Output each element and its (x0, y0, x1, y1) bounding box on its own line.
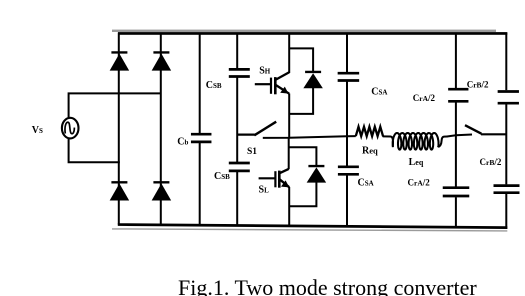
svg-text:S1: S1 (247, 147, 257, 157)
caption Fig.1 (178, 275, 477, 296)
capacitor CrA/2 (upper) (448, 89, 468, 101)
label CrA/2 lower (408, 177, 431, 187)
svg-text:SH: SH (259, 65, 271, 76)
svg-text:Req: Req (362, 146, 378, 157)
svg-text:CSA: CSA (358, 178, 374, 189)
svg-text:CSB: CSB (214, 171, 230, 182)
inductor Leq (383, 133, 447, 150)
svg-text:CrB/2: CrB/2 (480, 157, 502, 167)
resistor Req (356, 127, 383, 136)
svg-text:VS: VS (32, 125, 43, 136)
wire CrA column (455, 33, 457, 228)
diode D2 (leg 2 top) (152, 52, 172, 70)
label Vs (32, 125, 43, 136)
label Req (362, 146, 378, 157)
transistor SH (IGBT) (255, 72, 289, 94)
wire top rail (positive DC bus) (112, 30, 507, 35)
wire CrB column (505, 33, 507, 229)
capacitor CSA (lower) (338, 167, 359, 175)
capacitor CrA/2 (lower) (443, 188, 470, 196)
capacitor CSA (upper) (338, 73, 360, 80)
svg-text:SL: SL (259, 185, 270, 196)
wire main column (SH emitter to middle node) (288, 94, 290, 139)
label CSB lower (214, 171, 230, 182)
diode D4 (leg 2 bottom) (152, 182, 172, 200)
label S1 (247, 147, 257, 157)
wire main switch column (upper segment) (288, 33, 290, 74)
wire main column (SL emitter to bottom rail) (288, 187, 290, 227)
wire CSA column (346, 33, 348, 227)
label CrB/2 upper (467, 80, 489, 90)
diode DL (anti-parallel with SL) (289, 147, 326, 206)
capacitor CSB (lower) (229, 163, 250, 171)
label SH (259, 65, 271, 76)
label Cb (177, 136, 188, 147)
label CSA lower (358, 178, 374, 189)
diode D3 (leg 1 bottom) (110, 182, 129, 200)
wire Leq output to switch (447, 135, 472, 137)
capacitor Cb (191, 134, 212, 142)
capacitor CrB/2 (lower) (494, 186, 520, 193)
svg-text:CrA/2: CrA/2 (413, 93, 436, 103)
svg-text:CrB/2: CrB/2 (467, 80, 489, 90)
wire middle row (S1 to Req node) (263, 136, 356, 138)
svg-text:Cb: Cb (177, 136, 188, 147)
wire bridge leg 2 (160, 33, 162, 225)
diode DH (anti-parallel with SH) (289, 48, 323, 114)
label CSB upper (206, 80, 222, 91)
wire bottom rail (negative DC bus, slightly sloped) (112, 223, 507, 231)
capacitor CrB/2 (upper) (498, 92, 519, 104)
label Leq (409, 157, 424, 168)
svg-text:CSA: CSA (371, 87, 387, 98)
label CrB/2 lower (480, 157, 502, 167)
transistor SL (IGBT) (259, 169, 290, 188)
source Vs (AC input) (62, 118, 79, 139)
diode D1 (leg 1 top) (110, 52, 129, 70)
wire CSB column (236, 33, 238, 226)
label CrA/2 upper (413, 93, 436, 103)
switch S1 (237, 122, 276, 136)
wire Cb column (199, 33, 201, 225)
svg-text:Leq: Leq (409, 157, 424, 168)
capacitor CSB (upper) (229, 69, 250, 76)
label CSA upper (371, 87, 387, 98)
wire bridge leg 1 (118, 33, 120, 225)
label SL (259, 185, 270, 196)
svg-text:CrA/2: CrA/2 (408, 177, 431, 187)
wire main column (middle node to SL collector) (288, 138, 290, 169)
svg-text:CSB: CSB (206, 80, 222, 91)
switch S2 (output mode switch) (465, 125, 506, 134)
wire Vs upper lead to bridge leg 2 (69, 93, 161, 118)
wire Vs lower lead to bridge leg 1 (69, 138, 120, 162)
